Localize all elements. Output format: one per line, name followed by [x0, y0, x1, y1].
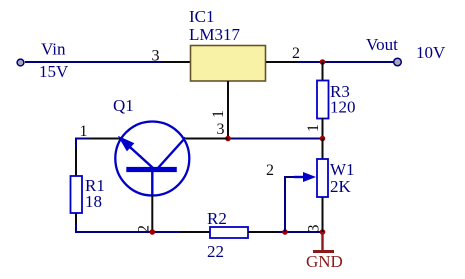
wire bottom rail right [278, 231, 323, 233]
resistor R2 body [210, 227, 248, 238]
pin 1 of IC1 (adjust, vertical) [227, 81, 229, 139]
transistor Q1 vertical lead inside circle [151, 172, 153, 196]
svg-text:22: 22 [207, 242, 224, 261]
transistor Q1 circle [115, 122, 189, 196]
potentiometer W1 wiper arrow [294, 172, 316, 182]
node 10V [416, 43, 446, 62]
value label 22 [207, 242, 224, 261]
svg-text:2: 2 [266, 162, 274, 179]
svg-text:120: 120 [330, 98, 356, 117]
wire Vout rail [297, 61, 397, 63]
value label LM317 [189, 25, 241, 44]
svg-text:2K: 2K [330, 177, 352, 196]
pin number 1 (rotated) [210, 110, 227, 118]
pin of R1 (top) [75, 147, 77, 176]
node Vout [366, 35, 398, 54]
junction IC1 pin1 / Q1 [225, 136, 231, 142]
svg-text:Vout: Vout [366, 35, 398, 54]
svg-text:1: 1 [80, 123, 88, 140]
node 15V [39, 62, 69, 81]
pin 1 of W1 (top) [322, 139, 324, 160]
ground [313, 232, 334, 252]
pin number 1 (rotated) [305, 124, 322, 132]
transistor Q1 base bar [126, 167, 177, 172]
svg-text:3: 3 [152, 48, 160, 65]
svg-text:3: 3 [217, 121, 225, 138]
pin of R1 (bottom) [75, 213, 77, 232]
pin number 3 [152, 48, 160, 65]
junction Q1 collector / bottom rail [150, 229, 156, 235]
wire bottom rail left [76, 223, 180, 232]
pin 3 of Q1 [186, 138, 228, 140]
resistor R3 body [317, 81, 329, 119]
node GND [306, 252, 343, 271]
pin 3 of IC1 (input) [161, 61, 190, 63]
node R1 designator [85, 176, 105, 195]
node IC1 designator [189, 7, 215, 26]
svg-text:10V: 10V [416, 43, 446, 62]
pin number 1 [80, 123, 88, 140]
junction GND / bottom rail [320, 229, 326, 235]
node Vin [41, 40, 66, 59]
terminal Vout [394, 58, 402, 66]
value label 120 [330, 98, 356, 117]
wire adjust rail [228, 138, 323, 140]
pin 2 of R3 (top) [322, 62, 324, 81]
value label 2K [330, 177, 352, 196]
svg-text:IC1: IC1 [189, 7, 215, 26]
junction Vout/R3 [320, 59, 326, 65]
node R3 designator [330, 82, 350, 101]
pin number 2 [292, 45, 300, 62]
pin number 3 [217, 121, 225, 138]
svg-text:1: 1 [210, 110, 227, 118]
node R2 designator [207, 209, 227, 228]
svg-text:15V: 15V [39, 62, 69, 81]
svg-text:R2: R2 [207, 209, 227, 228]
transistor Q1 emitter with arrow [118, 136, 153, 168]
svg-text:Vin: Vin [41, 40, 66, 59]
pin number 3 (rotated) [306, 225, 323, 233]
value label 18 [85, 192, 102, 211]
junction R3/W1 [320, 136, 326, 142]
pin 1 of Q1 [90, 138, 120, 140]
svg-text:LM317: LM317 [189, 25, 241, 44]
svg-text:18: 18 [85, 192, 102, 211]
pin number 2 (rotated) [136, 225, 153, 233]
voltage regulator IC1 (LM317) [191, 46, 266, 82]
svg-text:1: 1 [305, 124, 322, 132]
pin 1 of R3 (bottom) [322, 118, 324, 138]
pin number 2 [266, 162, 274, 179]
node W1 designator [330, 160, 355, 179]
pin 2 of Q1 (bottom) [151, 196, 153, 233]
junction W1 wiper / bottom rail [282, 229, 288, 235]
pin of R2 (right) [248, 231, 278, 233]
resistor R1 body [71, 176, 83, 213]
pin 2 of IC1 (output) [266, 61, 297, 63]
transistor Q1 collector diagonal [158, 138, 186, 169]
potentiometer W1 body [317, 159, 328, 197]
svg-text:Q1: Q1 [113, 96, 134, 115]
pin of R2 (left) [180, 231, 210, 233]
pin 3 of W1 (bottom) [322, 197, 324, 232]
pin 2 of W1 (wiper wire) [285, 177, 294, 232]
svg-text:3: 3 [306, 225, 323, 233]
wire Vin rail [25, 61, 161, 63]
svg-text:GND: GND [306, 252, 343, 271]
terminal Vin [17, 59, 24, 66]
svg-text:2: 2 [292, 45, 300, 62]
node Q1 designator [113, 96, 134, 115]
wire Q1 base corner [76, 139, 90, 148]
